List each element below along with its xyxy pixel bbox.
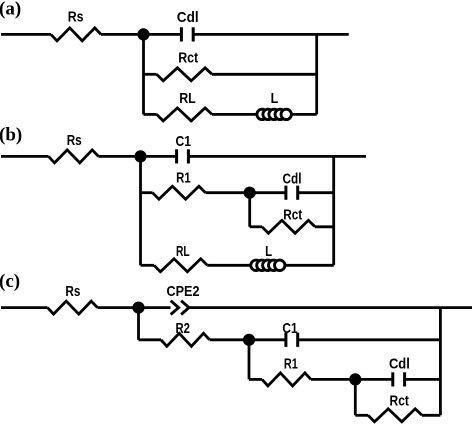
svg-text:Cdl: Cdl	[177, 10, 199, 26]
wire: (c) right bus	[439, 308, 442, 416]
panel label (a)	[0, 0, 21, 20]
wire: (b) node to C1	[141, 155, 177, 158]
svg-text:(a): (a)	[0, 0, 21, 20]
wire: (a) L to right bus	[292, 113, 317, 116]
inductor L (b)	[251, 244, 285, 270]
svg-text:Cdl: Cdl	[389, 357, 410, 373]
svg-text:Rct: Rct	[390, 394, 409, 410]
svg-text:R1: R1	[176, 170, 191, 186]
resistor R1 (c)	[262, 357, 311, 386]
wire: (c) node 3 stub down	[354, 379, 357, 415]
node (b) inner junction	[244, 187, 256, 199]
svg-text:(b): (b)	[0, 125, 22, 146]
wire: (b) left lead	[1, 155, 49, 158]
svg-text:R2: R2	[175, 321, 190, 337]
resistor Rct (b)	[262, 208, 315, 234]
resistor RL (a)	[157, 91, 212, 121]
wire: (c) left bus	[137, 308, 140, 340]
capacitor C1 (b)	[175, 134, 191, 164]
wire: (b) R1 row left lead	[141, 191, 153, 194]
capacitor C1 (c)	[282, 321, 297, 347]
svg-text:(c): (c)	[0, 271, 20, 292]
resistor R1 (b)	[153, 170, 206, 199]
wire: (c) C1 to right bus	[298, 338, 441, 341]
wire: (c) node to CPE2	[139, 306, 171, 309]
wire: (a) Rs to node	[101, 33, 144, 36]
wire: (c) node 3 to Cdl	[355, 378, 393, 381]
wire: (a) left lead	[1, 33, 51, 36]
wire: (c) Cdl to right bus	[405, 378, 441, 381]
svg-text:RL: RL	[179, 91, 196, 107]
resistor R2 (c)	[161, 321, 210, 346]
panel label (b)	[0, 125, 22, 146]
wire: (b) L to right bus	[285, 264, 334, 267]
svg-text:Rs: Rs	[65, 284, 80, 300]
wire: (b) Rct row right lead	[315, 225, 334, 228]
wire: (a) RL row left lead	[144, 113, 157, 116]
wire: (b) left bus	[139, 156, 142, 265]
wire: (a) node to Cdl	[144, 33, 182, 36]
svg-text:L: L	[265, 244, 272, 260]
wire: (b) inner node to Cdl	[250, 191, 286, 194]
resistor Rct (a)	[157, 50, 212, 81]
wire: (c) node 2 to C1	[249, 338, 286, 341]
svg-text:C1: C1	[282, 321, 297, 337]
capacitor Cdl (a)	[177, 10, 199, 42]
panel label (c)	[0, 271, 20, 292]
wire: (a) Rct row right lead	[212, 73, 317, 76]
wire: (b) RL row left lead	[141, 264, 155, 267]
wire: (b) Rct row left lead	[250, 225, 262, 228]
wire: (b) RL to L	[207, 264, 250, 267]
wire: (c) R1 row left lead	[249, 378, 262, 381]
wire: (b) Cdl to right bus	[298, 191, 334, 194]
svg-text:Cdl: Cdl	[283, 171, 302, 187]
resistor Rct (c)	[368, 394, 422, 422]
wire: (c) R2 row left lead	[139, 338, 162, 341]
wire: (c) Rs to node	[98, 306, 139, 309]
node (c) junction 2	[243, 334, 255, 346]
node (b) input junction	[134, 150, 146, 162]
node (a) input junction	[137, 28, 149, 40]
wire: (c) Rct row left lead	[355, 414, 368, 417]
wire: (a) left bus	[142, 34, 145, 114]
resistor Rs (a)	[51, 10, 101, 41]
resistor Rs (b)	[49, 133, 99, 163]
wire: (c) R2 to node 2	[210, 338, 249, 341]
svg-text:L: L	[271, 91, 279, 107]
svg-text:C1: C1	[175, 134, 191, 150]
wire: (b) inner node stub down	[248, 193, 251, 227]
node (c) junction 3	[349, 373, 361, 385]
svg-text:Rs: Rs	[67, 133, 82, 149]
svg-text:CPE2: CPE2	[167, 284, 200, 300]
wire: (c) node 2 stub down	[248, 340, 251, 380]
svg-text:Rct: Rct	[283, 208, 302, 224]
wire: (b) Rs to node	[99, 155, 141, 158]
capacitor Cdl (b)	[283, 171, 302, 200]
wire: (b) right bus	[332, 156, 335, 265]
capacitor Cdl (c)	[389, 357, 410, 387]
CPE element CPE2 (c)	[167, 284, 200, 315]
wire: (c) CPE2 to right terminal	[189, 306, 472, 309]
resistor RL (b)	[154, 244, 207, 272]
wire: (c) left lead	[1, 306, 48, 309]
wire: (a) Rct row left lead	[144, 73, 157, 76]
svg-text:RL: RL	[176, 244, 190, 260]
wire: (c) Rct row right lead	[422, 414, 440, 417]
inductor L (a)	[257, 91, 292, 119]
svg-text:R1: R1	[284, 357, 298, 373]
wire: (a) right bus	[315, 34, 318, 114]
wire: (b) C1 to right terminal	[188, 155, 366, 158]
svg-text:Rs: Rs	[68, 10, 84, 26]
svg-text:Rct: Rct	[178, 50, 198, 66]
wire: (b) R1 to inner node	[206, 191, 250, 194]
wire: (c) R1 to node 3	[311, 378, 355, 381]
wire: (a) RL to L	[212, 113, 256, 116]
node (c) input junction	[132, 302, 144, 314]
wire: (a) Cdl to right terminal	[193, 33, 349, 36]
resistor Rs (c)	[48, 284, 98, 314]
